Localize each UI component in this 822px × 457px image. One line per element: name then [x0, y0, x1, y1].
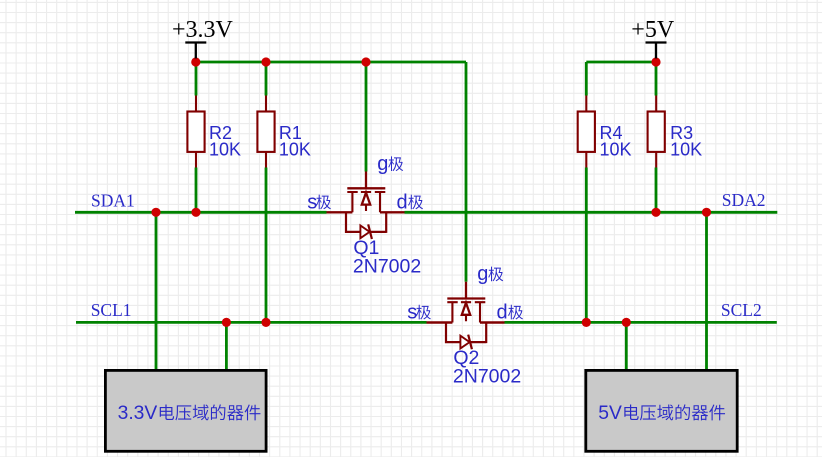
svg-text:g: g: [477, 263, 488, 285]
svg-text:10K: 10K: [670, 139, 702, 159]
svg-text:+5V: +5V: [631, 17, 675, 43]
svg-text:SCL1: SCL1: [91, 300, 132, 320]
svg-text:10K: 10K: [209, 139, 241, 159]
svg-text:d: d: [397, 192, 408, 214]
svg-text:2N7002: 2N7002: [353, 255, 421, 277]
svg-text:+3.3V: +3.3V: [172, 17, 234, 43]
svg-text:s: s: [407, 302, 417, 324]
svg-text:g: g: [377, 153, 388, 175]
svg-text:SCL2: SCL2: [721, 300, 762, 320]
svg-text:10K: 10K: [279, 139, 311, 159]
svg-text:SDA2: SDA2: [722, 190, 766, 210]
svg-text:10K: 10K: [600, 139, 632, 159]
svg-text:SDA1: SDA1: [91, 191, 135, 211]
svg-text:s: s: [307, 192, 317, 214]
svg-text:d: d: [497, 302, 508, 324]
svg-text:3.3V: 3.3V: [118, 403, 158, 424]
svg-text:5V: 5V: [598, 403, 622, 424]
svg-text:2N7002: 2N7002: [453, 366, 521, 388]
